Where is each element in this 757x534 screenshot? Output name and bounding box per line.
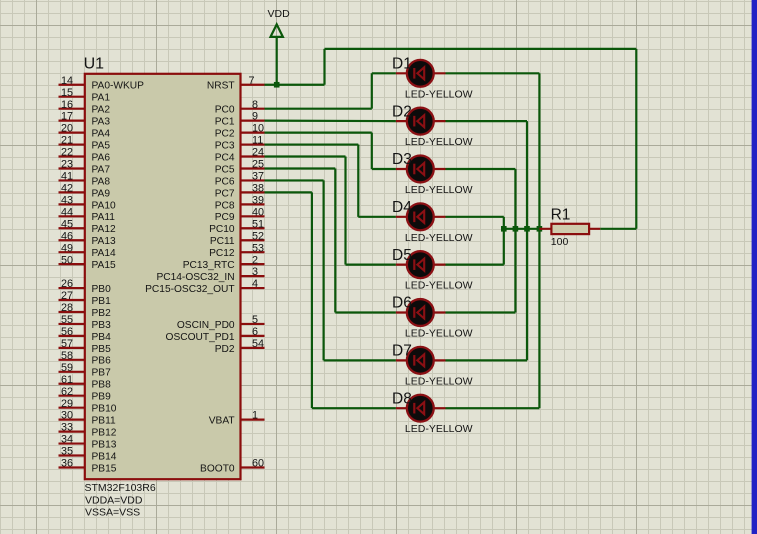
svg-text:27: 27: [61, 290, 73, 302]
svg-text:52: 52: [252, 230, 264, 242]
svg-text:PC12: PC12: [209, 248, 235, 259]
svg-text:PC0: PC0: [215, 105, 235, 116]
svg-text:46: 46: [61, 230, 73, 242]
svg-text:PA13: PA13: [92, 236, 116, 247]
svg-text:NRST: NRST: [207, 81, 235, 92]
svg-text:14: 14: [61, 75, 73, 87]
svg-text:PA8: PA8: [92, 176, 111, 187]
svg-text:BOOT0: BOOT0: [200, 463, 235, 474]
svg-text:23: 23: [61, 159, 73, 171]
svg-text:PC8: PC8: [215, 200, 235, 211]
svg-text:28: 28: [61, 302, 73, 314]
svg-text:8: 8: [252, 99, 258, 111]
svg-text:PB5: PB5: [92, 344, 112, 355]
svg-text:42: 42: [61, 182, 73, 194]
svg-text:PB4: PB4: [92, 332, 112, 343]
svg-text:PB7: PB7: [92, 368, 112, 379]
svg-text:D7: D7: [392, 343, 412, 360]
svg-text:29: 29: [61, 398, 73, 410]
svg-text:PC2: PC2: [215, 128, 235, 139]
svg-text:PA11: PA11: [92, 212, 116, 223]
svg-text:PB2: PB2: [92, 308, 112, 319]
svg-text:PC10: PC10: [209, 224, 235, 235]
svg-text:43: 43: [61, 194, 73, 206]
svg-text:PB9: PB9: [92, 392, 112, 403]
svg-text:LED-YELLOW: LED-YELLOW: [405, 375, 473, 387]
svg-text:VBAT: VBAT: [209, 416, 235, 427]
svg-text:OSCOUT_PD1: OSCOUT_PD1: [166, 332, 235, 343]
svg-text:D8: D8: [392, 390, 412, 407]
svg-text:LED-YELLOW: LED-YELLOW: [405, 280, 473, 292]
svg-text:49: 49: [61, 242, 73, 254]
svg-text:VSSA=VSS: VSSA=VSS: [85, 507, 140, 519]
svg-text:PC15-OSC32_OUT: PC15-OSC32_OUT: [145, 284, 234, 295]
svg-text:35: 35: [61, 446, 73, 458]
svg-text:LED-YELLOW: LED-YELLOW: [405, 184, 473, 196]
svg-text:PA4: PA4: [92, 128, 111, 139]
svg-text:59: 59: [61, 362, 73, 374]
svg-text:30: 30: [61, 410, 73, 422]
svg-text:R1: R1: [551, 207, 571, 224]
svg-text:1: 1: [252, 410, 258, 422]
svg-text:PC9: PC9: [215, 212, 235, 223]
svg-text:6: 6: [252, 326, 258, 338]
svg-text:10: 10: [252, 123, 264, 135]
svg-text:16: 16: [61, 99, 73, 111]
svg-text:STM32F103R6: STM32F103R6: [85, 482, 156, 494]
svg-text:LED-YELLOW: LED-YELLOW: [405, 88, 473, 100]
svg-text:25: 25: [252, 159, 264, 171]
svg-text:D1: D1: [392, 56, 412, 73]
svg-text:24: 24: [252, 147, 264, 159]
svg-text:PC14-OSC32_IN: PC14-OSC32_IN: [156, 272, 234, 283]
svg-text:62: 62: [61, 386, 73, 398]
svg-text:36: 36: [61, 458, 73, 470]
svg-text:PB13: PB13: [92, 439, 117, 450]
svg-text:2: 2: [252, 254, 258, 266]
svg-text:LED-YELLOW: LED-YELLOW: [405, 423, 473, 435]
svg-text:PC6: PC6: [215, 176, 235, 187]
svg-text:PA1: PA1: [92, 93, 111, 104]
svg-text:PA6: PA6: [92, 152, 111, 163]
svg-text:LED-YELLOW: LED-YELLOW: [405, 232, 473, 244]
svg-text:56: 56: [61, 326, 73, 338]
svg-text:53: 53: [252, 242, 264, 254]
svg-text:33: 33: [61, 422, 73, 434]
svg-text:45: 45: [61, 218, 73, 230]
svg-text:PA3: PA3: [92, 117, 111, 128]
svg-text:34: 34: [61, 434, 73, 446]
svg-text:PC13_RTC: PC13_RTC: [183, 260, 235, 271]
svg-text:3: 3: [252, 266, 258, 278]
svg-text:D3: D3: [392, 151, 412, 168]
svg-text:60: 60: [252, 458, 264, 470]
svg-text:VDDA=VDD: VDDA=VDD: [85, 494, 143, 506]
svg-text:PC7: PC7: [215, 188, 235, 199]
svg-text:PB10: PB10: [92, 404, 117, 415]
svg-text:PB14: PB14: [92, 451, 117, 462]
svg-text:38: 38: [252, 182, 264, 194]
svg-text:11: 11: [252, 135, 263, 147]
svg-text:PA14: PA14: [92, 248, 116, 259]
svg-text:PA12: PA12: [92, 224, 116, 235]
svg-text:50: 50: [61, 254, 73, 266]
svg-text:57: 57: [61, 338, 73, 350]
svg-text:PB11: PB11: [92, 416, 116, 427]
svg-text:D2: D2: [392, 103, 412, 120]
svg-text:55: 55: [61, 314, 73, 326]
svg-text:D5: D5: [392, 247, 412, 264]
svg-text:LED-YELLOW: LED-YELLOW: [405, 328, 473, 340]
svg-text:OSCIN_PD0: OSCIN_PD0: [177, 320, 235, 331]
svg-text:61: 61: [61, 374, 73, 386]
svg-text:U1: U1: [84, 56, 105, 73]
svg-text:51: 51: [252, 218, 264, 230]
svg-text:PC1: PC1: [215, 117, 235, 128]
svg-text:58: 58: [61, 350, 73, 362]
svg-text:LED-YELLOW: LED-YELLOW: [405, 136, 473, 148]
svg-text:40: 40: [252, 206, 264, 218]
svg-text:9: 9: [252, 111, 258, 123]
svg-text:PB1: PB1: [92, 296, 112, 307]
svg-text:22: 22: [61, 147, 73, 159]
svg-text:PB3: PB3: [92, 320, 112, 331]
svg-text:21: 21: [61, 135, 73, 147]
svg-text:PA5: PA5: [92, 140, 111, 151]
svg-text:VDD: VDD: [268, 8, 291, 20]
svg-text:PB0: PB0: [92, 284, 112, 295]
svg-text:PD2: PD2: [215, 344, 235, 355]
svg-text:39: 39: [252, 194, 264, 206]
svg-text:26: 26: [61, 278, 73, 290]
svg-text:41: 41: [61, 171, 73, 183]
svg-text:54: 54: [252, 338, 264, 350]
svg-text:44: 44: [61, 206, 73, 218]
svg-text:PC5: PC5: [215, 164, 235, 175]
svg-text:PA7: PA7: [92, 164, 111, 175]
svg-text:PB15: PB15: [92, 463, 117, 474]
svg-text:D6: D6: [392, 295, 412, 312]
svg-text:PA0-WKUP: PA0-WKUP: [92, 81, 145, 92]
svg-text:100: 100: [551, 236, 569, 248]
svg-text:PB6: PB6: [92, 356, 112, 367]
svg-text:PA15: PA15: [92, 260, 116, 271]
svg-text:PC3: PC3: [215, 140, 235, 151]
svg-text:4: 4: [252, 278, 258, 290]
svg-text:5: 5: [252, 314, 258, 326]
svg-text:PC11: PC11: [210, 236, 235, 247]
svg-text:PA9: PA9: [92, 188, 111, 199]
svg-text:37: 37: [252, 171, 264, 183]
svg-text:20: 20: [61, 123, 73, 135]
svg-text:PA2: PA2: [92, 105, 111, 116]
svg-text:PB8: PB8: [92, 380, 112, 391]
svg-text:17: 17: [61, 111, 73, 123]
svg-text:PB12: PB12: [92, 427, 117, 438]
svg-text:15: 15: [61, 87, 73, 99]
svg-text:D4: D4: [392, 199, 412, 216]
svg-text:PC4: PC4: [215, 152, 235, 163]
svg-text:PA10: PA10: [92, 200, 116, 211]
svg-text:7: 7: [249, 75, 255, 87]
